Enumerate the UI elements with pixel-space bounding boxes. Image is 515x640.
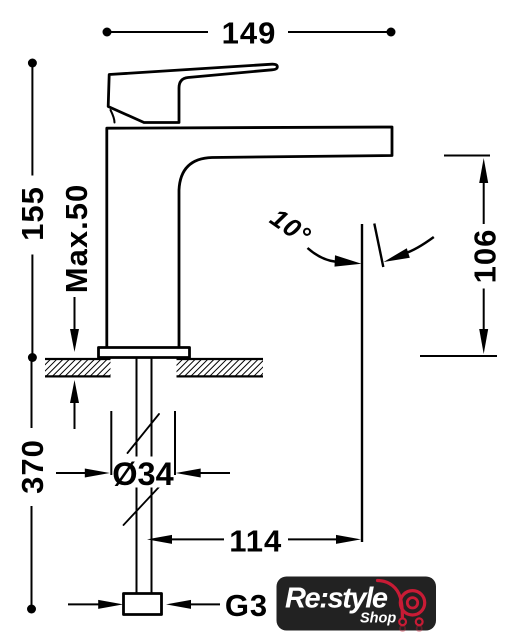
svg-text:Shop: Shop — [360, 611, 396, 627]
svg-text:106: 106 — [467, 229, 502, 284]
svg-text:G3: G3 — [225, 588, 268, 623]
svg-text:155: 155 — [15, 186, 50, 241]
svg-text:149: 149 — [222, 16, 277, 51]
svg-text:114: 114 — [229, 524, 282, 559]
svg-text:Ø34: Ø34 — [112, 456, 173, 492]
svg-text:Max.50: Max.50 — [59, 184, 94, 293]
svg-text:370: 370 — [15, 439, 50, 494]
